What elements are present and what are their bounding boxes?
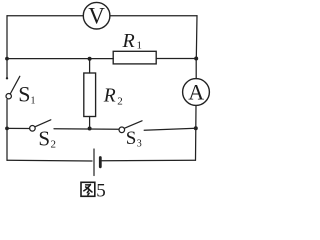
node right line2 bbox=[194, 126, 198, 130]
svg-text:A: A bbox=[188, 80, 204, 105]
battery short plate (thick) bbox=[99, 158, 102, 167]
svg-text:5: 5 bbox=[96, 181, 106, 202]
caption 图 (drawn) bbox=[81, 182, 95, 196]
resistor R1 bbox=[113, 51, 156, 64]
wire inner line2 middle segment bbox=[54, 128, 119, 130]
wire inner line1 left bbox=[7, 58, 113, 60]
wire right vertical to ammeter bbox=[195, 59, 197, 79]
node R2 bottom bbox=[88, 127, 92, 131]
svg-text:3: 3 bbox=[137, 139, 142, 150]
resistor R2 bbox=[84, 73, 96, 117]
svg-text:R: R bbox=[103, 85, 116, 106]
svg-text:2: 2 bbox=[51, 139, 57, 151]
svg-text:S: S bbox=[38, 127, 50, 151]
wire top-right bbox=[110, 15, 197, 17]
wire left vertical upper bbox=[6, 16, 8, 79]
wire inner line1 right bbox=[156, 58, 196, 60]
svg-text:R: R bbox=[122, 30, 135, 52]
switch S3 bbox=[119, 127, 125, 133]
wire inner line2 first segment bbox=[7, 127, 30, 129]
wire bottom left segment bbox=[7, 159, 92, 162]
wire top-left bbox=[7, 15, 83, 17]
svg-text:1: 1 bbox=[137, 40, 143, 52]
svg-text:S: S bbox=[18, 82, 30, 107]
svg-text:V: V bbox=[88, 3, 105, 28]
node left line1 bbox=[5, 57, 9, 61]
wire ammeter to node bbox=[195, 106, 197, 129]
wire left vertical lower bbox=[6, 100, 8, 161]
S1 upper contact tick bbox=[6, 77, 8, 79]
switch S2 bbox=[30, 126, 36, 132]
svg-text:1: 1 bbox=[31, 96, 36, 107]
wire R2 top lead bbox=[89, 59, 91, 73]
ammeter A bbox=[183, 79, 210, 106]
svg-text:2: 2 bbox=[117, 95, 123, 107]
svg-text:S: S bbox=[126, 128, 137, 149]
node R2 top bbox=[88, 57, 92, 61]
switch S1 bbox=[6, 94, 11, 99]
voltmeter V bbox=[83, 2, 110, 29]
node right line1 bbox=[194, 57, 198, 61]
wire right vertical upper bbox=[195, 16, 198, 59]
node left line2 bbox=[5, 126, 9, 130]
wire inner line2 right segment bbox=[144, 128, 196, 130]
wire right vertical lower bbox=[195, 128, 197, 160]
wire bottom right segment bbox=[102, 159, 196, 162]
battery long plate bbox=[93, 149, 95, 176]
wire R2 bottom lead bbox=[89, 117, 91, 129]
